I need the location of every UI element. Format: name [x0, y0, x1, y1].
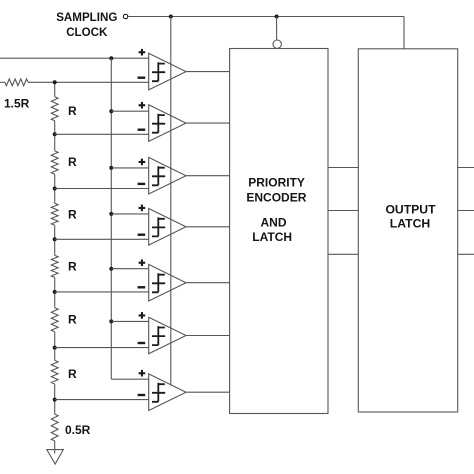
svg-text:R: R	[68, 367, 77, 381]
svg-text:LATCH: LATCH	[252, 230, 292, 244]
svg-text:R: R	[68, 259, 77, 273]
node: ladder tap 7	[53, 398, 57, 402]
node: input line to VIN bus	[109, 56, 113, 60]
node: VIN bus tap for comparator 4	[109, 212, 113, 216]
comparator U3	[138, 157, 186, 194]
node: VIN bus tap for comparator 3	[109, 166, 113, 170]
node: ladder tap 4	[53, 237, 57, 241]
node: clock rail to comparator clock bus	[169, 15, 173, 19]
resistor R1 (value R)	[51, 97, 58, 121]
wire: VIN bus to comparator 6 + input	[111, 320, 148, 322]
wire: ladder segment above R5	[54, 277, 56, 307]
wire: sampling clock horizontal rail	[128, 16, 404, 18]
wire: VIN bus to comparator 3 + input	[111, 167, 148, 169]
node: VIN bus tap for comparator 6	[109, 319, 113, 323]
node: VIN bus tap for comparator 5	[109, 267, 113, 271]
svg-text:1.5R: 1.5R	[4, 96, 30, 110]
wire: VIN bus to comparator 7 + input	[111, 378, 148, 380]
svg-text:R: R	[68, 313, 77, 327]
resistor R3 (value R)	[51, 203, 58, 225]
wire: VIN bus (vertical)	[110, 58, 112, 379]
block: priority encoder and latch	[230, 49, 328, 414]
resistor R4 (value R)	[51, 255, 58, 277]
wire: priority encoder to output latch	[328, 167, 358, 169]
wire: clock drop to output latch	[403, 17, 405, 49]
node: ladder tap 6	[53, 346, 57, 350]
wire: analog input line to comparator 1 + input	[0, 57, 149, 59]
svg-text:PRIORITY: PRIORITY	[248, 176, 305, 190]
wire: ladder tap to comparator 4 - input	[55, 238, 149, 240]
svg-text:R: R	[68, 104, 77, 118]
wire: comparator U2 output to priority encoder	[186, 122, 230, 124]
resistor 1.5R (horizontal)	[5, 79, 28, 86]
resistor R5 (value R)	[51, 308, 58, 332]
wire: ladder segment above R4	[54, 225, 56, 255]
wire: ladder tap to comparator 6 - input	[55, 347, 149, 349]
wire: ladder tap to comparator 3 - input	[55, 188, 149, 190]
wire: clock drop to priority encoder	[276, 17, 278, 41]
svg-text:R: R	[68, 207, 77, 221]
wire: output latch digital output	[458, 253, 474, 255]
comparator U2	[138, 102, 186, 141]
svg-text:ENCODER: ENCODER	[246, 191, 306, 205]
wire: left edge to 1.5R	[0, 81, 5, 83]
comparator U5	[138, 259, 186, 301]
node: ladder tap 2	[53, 132, 57, 136]
wire: ladder segment above R2	[54, 121, 56, 151]
comparator U4	[138, 205, 186, 246]
svg-text:LATCH: LATCH	[390, 216, 430, 230]
wire: VIN bus to comparator 5 + input	[111, 268, 148, 270]
wire: 1.5R to comparator 1 - input	[28, 81, 149, 83]
wire: ladder segment above R6	[54, 332, 56, 361]
wire: ladder tap to comparator 7 - input	[55, 399, 149, 401]
node: ladder tap 3	[53, 187, 57, 191]
label SAMPLING CLOCK	[56, 11, 117, 39]
wire: VIN bus to comparator 4 + input	[111, 213, 148, 215]
wire: priority encoder to output latch	[328, 210, 358, 212]
wire: output latch digital output	[458, 167, 474, 169]
wire: 0.5R to ground	[54, 441, 56, 454]
wire: comparator U3 output to priority encoder	[186, 175, 230, 177]
svg-text:R: R	[68, 155, 77, 169]
wire: comparator U7 output to priority encoder	[186, 391, 230, 393]
wire: priority encoder to output latch	[328, 253, 358, 255]
svg-text:AND: AND	[261, 215, 287, 229]
svg-text:SAMPLING: SAMPLING	[56, 11, 117, 24]
wire: output latch digital output	[458, 210, 474, 212]
node: ladder tap 1	[53, 80, 57, 84]
sampling clock input terminal (open circle)	[123, 14, 127, 18]
wire: ladder segment above R3	[54, 174, 56, 203]
resistor 0.5R	[51, 414, 58, 441]
block: output latch	[358, 49, 457, 412]
comparator U1	[138, 49, 186, 90]
svg-text:CLOCK: CLOCK	[66, 26, 108, 39]
comparator U6	[138, 312, 186, 354]
node: clock rail to priority encoder clock	[275, 15, 279, 19]
wire: VIN bus to comparator 2 + input	[111, 110, 148, 112]
wire: comparator clock bus (vertical)	[170, 17, 172, 386]
ground symbol	[47, 450, 64, 464]
label OUTPUT LATCH	[385, 203, 436, 231]
wire: ladder tap to comparator 2 - input	[55, 133, 149, 135]
svg-text:0.5R: 0.5R	[65, 423, 91, 437]
wire: comparator U4 output to priority encoder	[186, 226, 230, 228]
wire: ladder tap to comparator 5 - input	[55, 291, 149, 293]
label PRIORITY ENCODER AND LATCH	[246, 176, 306, 245]
wire: ladder segment above 0.5R	[54, 384, 56, 414]
node: ladder tap 5	[53, 290, 57, 294]
wire: comparator U6 output to priority encoder	[186, 335, 230, 337]
resistor R2 (value R)	[51, 151, 58, 174]
resistor R6 (value R)	[51, 360, 58, 384]
svg-text:OUTPUT: OUTPUT	[385, 203, 436, 217]
wire: ladder segment above R1	[54, 82, 56, 96]
wire: comparator U5 output to priority encoder	[186, 282, 230, 284]
comparator U7	[138, 370, 186, 411]
inversion bubble on priority encoder clock input	[273, 40, 281, 48]
wire: comparator U1 output to priority encoder	[186, 71, 230, 73]
node: VIN bus tap for comparator 2	[109, 109, 113, 113]
